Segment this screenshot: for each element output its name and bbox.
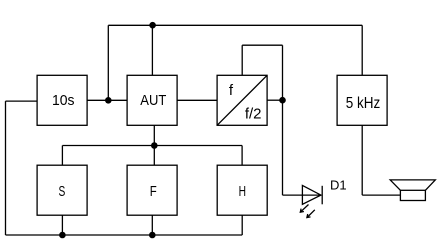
wire to LED anode — [283, 194, 322, 196]
wire H bottom to rail — [241, 215, 243, 235]
svg-text:D1: D1 — [330, 178, 347, 193]
wire H top feed — [241, 146, 243, 166]
LED D1 — [300, 185, 322, 217]
wire divider feedback down to LED — [282, 45, 284, 195]
wire divider feedback top — [242, 44, 282, 46]
svg-text:S: S — [59, 183, 66, 200]
svg-text:f/2: f/2 — [245, 106, 262, 123]
junction divider output node — [279, 97, 286, 104]
junction bottom rail / S — [59, 232, 66, 239]
speaker — [390, 180, 435, 201]
frequency divider block f/f2 — [217, 75, 267, 125]
wire AUT output to divider input — [177, 99, 217, 101]
wire S top feed — [61, 146, 63, 166]
block 10s (timer) — [37, 75, 87, 125]
wire S bottom to rail — [61, 215, 63, 235]
svg-text:F: F — [150, 183, 157, 200]
block F — [127, 165, 177, 215]
junction top rail / AUT feed — [149, 22, 156, 29]
wire to speaker — [362, 194, 400, 196]
block S — [37, 165, 87, 215]
svg-text:10s: 10s — [52, 92, 75, 109]
wire F bottom to rail — [151, 215, 153, 235]
wire 5 kHz output down — [361, 125, 363, 195]
block AUT — [127, 75, 177, 125]
wire divider output to node — [267, 99, 282, 101]
wire AUT bottom through to F top — [153, 125, 155, 165]
wire left rail — [5, 101, 7, 235]
junction 10s-AUT net / top rail drop — [105, 97, 112, 104]
svg-text:H: H — [239, 183, 246, 200]
wire AUT top feed — [151, 25, 153, 75]
wire left input to 10s — [6, 100, 38, 102]
wire 10s output to AUT input — [87, 99, 127, 101]
svg-text:AUT: AUT — [140, 92, 166, 109]
junction S-F-H rail / AUT bottom — [151, 142, 158, 149]
wire S-F-H feed rail — [62, 145, 242, 147]
junction bottom rail / F — [149, 232, 156, 239]
wire bottom rail — [6, 234, 243, 236]
wire divider feedback up — [241, 45, 243, 75]
svg-text:5 kHz: 5 kHz — [346, 95, 381, 112]
svg-text:f: f — [229, 82, 234, 99]
block H — [217, 165, 267, 215]
wire 5 kHz top feed — [361, 25, 363, 75]
block 5 kHz oscillator — [337, 75, 387, 125]
wire top rail — [108, 24, 362, 26]
wire top rail left drop to 10s-AUT net — [107, 25, 109, 100]
